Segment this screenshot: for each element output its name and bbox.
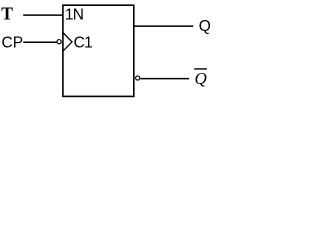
svg-text:Q: Q: [199, 18, 211, 35]
overbar of Q-bar: [194, 68, 207, 70]
wire Q output: [135, 25, 194, 27]
wire T to pin 1N: [23, 14, 63, 16]
svg-text:Q: Q: [195, 69, 207, 88]
inversion bubble on Q-bar output: [136, 76, 140, 80]
wire Q-bar output: [141, 78, 190, 80]
svg-text:1N: 1N: [65, 7, 83, 24]
svg-text:C1: C1: [74, 34, 93, 51]
wire CP to clock bubble: [23, 41, 57, 43]
svg-text:T: T: [1, 4, 13, 24]
svg-text:CP: CP: [2, 34, 24, 51]
flip-flop body U1: [63, 5, 134, 96]
clock polarity bubble: [57, 40, 61, 44]
dynamic clock triangle: [63, 33, 72, 52]
